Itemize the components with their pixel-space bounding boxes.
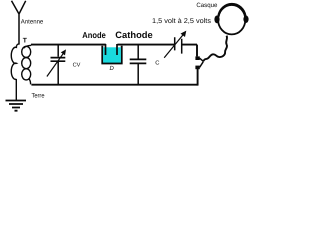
capacitor C lead top bbox=[137, 45, 139, 85]
capacitor CV leads bbox=[57, 45, 59, 85]
diode D electrolyte bbox=[103, 47, 121, 62]
svg-text:Terre: Terre bbox=[32, 93, 45, 100]
svg-text:Antenne: Antenne bbox=[21, 19, 44, 26]
diode D cup bbox=[102, 46, 121, 64]
antenna bbox=[12, 1, 26, 45]
wire right edge top bbox=[196, 45, 198, 57]
svg-text:Anode: Anode bbox=[82, 30, 106, 40]
ground lead wire bbox=[15, 79, 17, 100]
diode D anode leg bbox=[105, 44, 107, 55]
wire right edge bottom bbox=[197, 69, 199, 86]
svg-text:Cathode: Cathode bbox=[115, 30, 152, 40]
svg-text:1,5 volt à 2,5 volts: 1,5 volt à 2,5 volts bbox=[152, 17, 212, 25]
terminal square 2 bbox=[195, 66, 199, 70]
headphones left earcup bbox=[214, 16, 219, 24]
wire terminal diagonals bbox=[200, 58, 204, 67]
series variable capacitor arrow bbox=[164, 34, 183, 58]
headphone cable bbox=[203, 36, 227, 62]
transformer secondary coil bbox=[24, 45, 32, 84]
ground bbox=[6, 101, 27, 111]
terminal square 1 bbox=[195, 56, 199, 60]
svg-text:C: C bbox=[155, 59, 159, 66]
wire top bbox=[31, 44, 197, 46]
headphones head bbox=[218, 5, 245, 34]
wire bottom bbox=[31, 84, 197, 86]
series variable capacitor plates bbox=[175, 37, 182, 53]
svg-text:Casque: Casque bbox=[196, 2, 218, 9]
capacitor CV plates bbox=[51, 58, 66, 62]
diode D cathode leg bbox=[116, 44, 118, 55]
capacitor C plates bbox=[130, 59, 147, 63]
capacitor CV arrow bbox=[47, 52, 64, 76]
svg-text:CV: CV bbox=[73, 62, 81, 68]
headphones right earcup bbox=[243, 16, 248, 23]
svg-text:D: D bbox=[110, 65, 115, 72]
headphones band bbox=[218, 4, 245, 16]
transformer primary coil bbox=[11, 44, 19, 80]
